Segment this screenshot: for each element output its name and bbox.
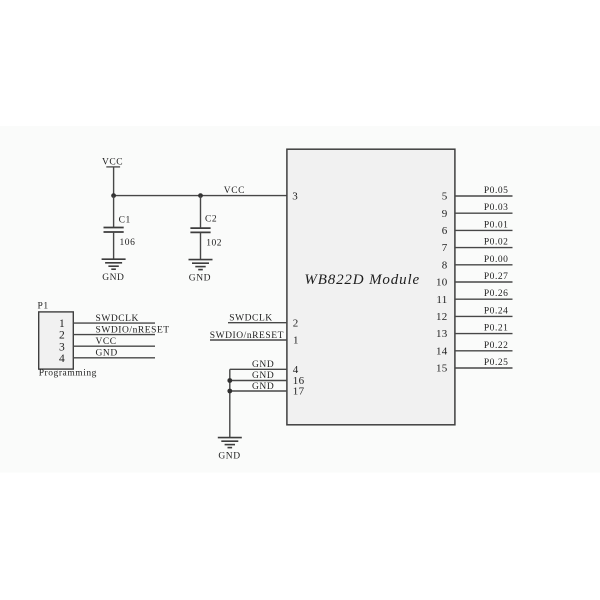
svg-text:14: 14 (436, 345, 448, 357)
svg-text:106: 106 (120, 238, 136, 248)
svg-text:P0.00: P0.00 (484, 255, 509, 265)
svg-text:12: 12 (436, 311, 448, 323)
wire P0.24 stub (455, 315, 513, 317)
ground (C2) (189, 260, 213, 284)
wire P0.02 stub (455, 247, 513, 249)
svg-text:5: 5 (442, 191, 448, 203)
wire GND stub pin 17 (230, 390, 287, 392)
svg-text:17: 17 (293, 386, 305, 398)
svg-text:3: 3 (292, 190, 298, 202)
wire P0.05 stub (455, 195, 513, 197)
svg-text:P0.24: P0.24 (484, 306, 509, 316)
junction pin 16 (227, 378, 232, 383)
svg-text:SWDCLK: SWDCLK (96, 314, 139, 324)
svg-text:8: 8 (442, 259, 448, 271)
svg-text:P0.01: P0.01 (484, 220, 509, 230)
svg-text:P0.27: P0.27 (484, 272, 509, 282)
junction pin 17 (227, 389, 232, 394)
wire P1 pin 2 (73, 334, 155, 336)
wire node B to C2 (200, 196, 202, 228)
svg-text:P0.02: P0.02 (484, 238, 509, 248)
svg-text:9: 9 (442, 208, 448, 220)
svg-text:P0.25: P0.25 (484, 358, 509, 368)
wire GND stub pin 4 (230, 368, 287, 370)
svg-text:4: 4 (59, 353, 65, 365)
wire C2 to ground (200, 232, 202, 259)
svg-text:VCC: VCC (102, 158, 123, 168)
wire P0.25 stub (455, 367, 513, 369)
svg-text:3: 3 (59, 341, 65, 353)
module U1 WB822D (287, 149, 455, 425)
svg-text:7: 7 (442, 242, 448, 254)
svg-text:C2: C2 (205, 215, 217, 225)
wire P1 pin 4 (73, 357, 155, 359)
wire P0.00 stub (455, 264, 513, 266)
ground (C1) (102, 259, 126, 283)
svg-text:Programming: Programming (39, 369, 97, 379)
svg-text:4: 4 (293, 364, 299, 376)
node B junction (198, 193, 203, 198)
svg-text:P0.21: P0.21 (484, 324, 509, 334)
svg-text:SWDIO/nRESET: SWDIO/nRESET (96, 325, 170, 335)
svg-text:SWDCLK: SWDCLK (229, 313, 272, 323)
svg-text:2: 2 (293, 317, 299, 329)
svg-text:C1: C1 (119, 215, 131, 225)
svg-text:P0.03: P0.03 (484, 203, 509, 213)
wire node A to C1 (113, 196, 115, 228)
svg-text:15: 15 (436, 363, 448, 375)
svg-text:VCC: VCC (96, 337, 117, 347)
wire P0.27 stub (455, 281, 513, 283)
svg-text:GND: GND (252, 371, 274, 381)
svg-text:102: 102 (206, 238, 222, 248)
svg-text:2: 2 (59, 330, 65, 342)
wire GND bus vertical (229, 369, 231, 437)
svg-text:P1: P1 (38, 302, 49, 312)
wire SWDCLK to pin 2 (228, 322, 287, 324)
wire GND stub pin 16 (230, 380, 287, 382)
svg-text:6: 6 (442, 225, 448, 237)
wire P1 pin 1 (73, 322, 155, 324)
svg-text:GND: GND (252, 382, 274, 392)
svg-text:1: 1 (293, 335, 299, 347)
svg-text:1: 1 (59, 318, 65, 330)
svg-text:GND: GND (96, 348, 118, 358)
svg-text:11: 11 (436, 294, 447, 306)
wire C1 to ground (113, 232, 115, 259)
svg-text:GND: GND (189, 273, 211, 283)
wire P0.21 stub (455, 333, 513, 335)
wire VCC symbol to node A (113, 168, 115, 196)
svg-text:P0.22: P0.22 (484, 341, 509, 351)
svg-text:GND: GND (252, 360, 274, 370)
svg-text:GND: GND (102, 273, 124, 283)
svg-text:13: 13 (436, 328, 448, 340)
svg-text:GND: GND (218, 452, 240, 462)
wire P1 pin 3 (73, 345, 155, 347)
svg-text:10: 10 (436, 277, 448, 289)
node A junction (111, 193, 116, 198)
wire SWDIO/nRESET to pin 1 (210, 339, 287, 341)
ground (GND bus) (218, 438, 242, 462)
capacitor C2 (190, 228, 210, 232)
wire P0.22 stub (455, 350, 513, 352)
connector P1 (38, 302, 74, 370)
svg-text:WB822D Module: WB822D Module (304, 272, 420, 288)
svg-text:VCC: VCC (224, 186, 245, 196)
power symbol VCC (102, 158, 123, 168)
wire P0.01 stub (455, 229, 513, 231)
wire VCC rail to module pin 3 (114, 195, 288, 197)
wire P0.26 stub (455, 298, 513, 300)
wire P0.03 stub (455, 212, 513, 214)
capacitor C1 (104, 228, 124, 233)
svg-text:P0.26: P0.26 (484, 289, 509, 299)
svg-text:P0.05: P0.05 (484, 186, 509, 196)
svg-text:SWDIO/nRESET: SWDIO/nRESET (210, 331, 284, 341)
